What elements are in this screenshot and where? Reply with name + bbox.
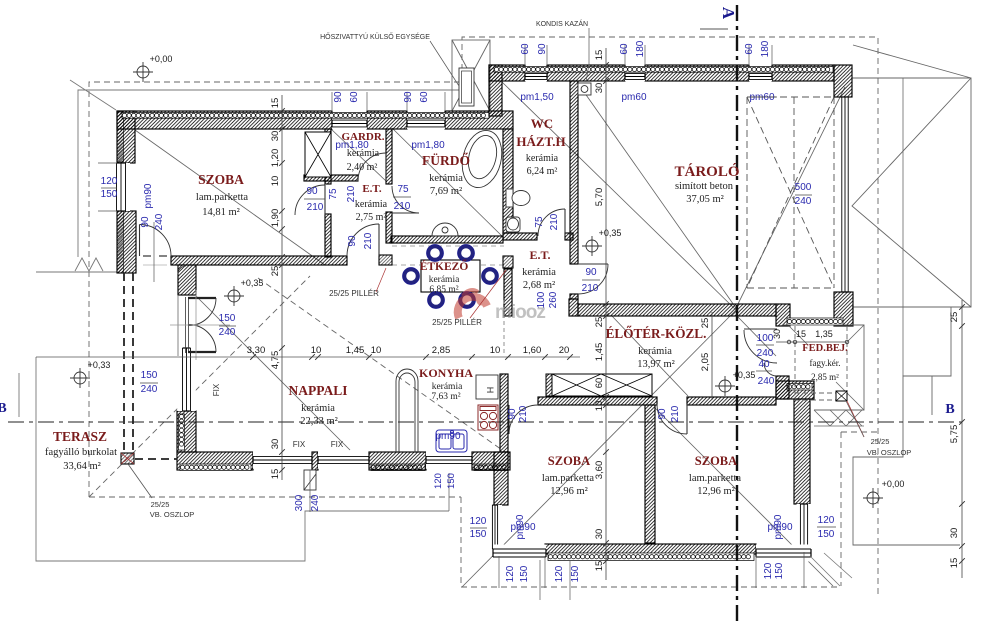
terrace dashed diagonal — [89, 276, 310, 497]
svg-text:3,30: 3,30 — [247, 345, 266, 356]
insulation dots north wall left block — [122, 113, 489, 119]
svg-text:210: 210 — [394, 201, 411, 212]
svg-text:240: 240 — [310, 494, 321, 511]
svg-text:KONYHA: KONYHA — [419, 366, 473, 380]
svg-text:30: 30 — [594, 529, 605, 540]
wall furdo south — [391, 236, 503, 243]
svg-text:100: 100 — [757, 333, 774, 344]
svg-text:pm1,80: pm1,80 — [411, 140, 445, 151]
dim chain vertical x606 — [605, 48, 607, 580]
svg-text:pm60: pm60 — [749, 92, 774, 103]
dim chain vertical x712 eloter — [711, 312, 713, 400]
svg-text:5,75: 5,75 — [949, 425, 960, 444]
svg-text:15: 15 — [796, 329, 806, 339]
level marker +0,00 top — [133, 62, 153, 82]
tarolo east glazing — [842, 97, 848, 292]
extension lines szoba1 west window — [98, 162, 117, 164]
svg-text:SZOBA: SZOBA — [198, 172, 244, 187]
door entry 100/240 main leaf — [744, 330, 777, 363]
toilet wc — [506, 189, 530, 207]
svg-text:90: 90 — [537, 43, 548, 55]
svg-text:10: 10 — [371, 345, 382, 356]
svg-text:30: 30 — [949, 528, 960, 539]
svg-text:+0,35: +0,35 — [241, 278, 264, 288]
wall konyha east — [500, 374, 508, 452]
window fix nappali south 1 — [253, 451, 312, 469]
chairs etkezo blue — [427, 245, 444, 262]
pillar 25/25 at et268 — [503, 256, 513, 268]
svg-text:210: 210 — [582, 283, 599, 294]
svg-text:15: 15 — [270, 469, 281, 480]
svg-text:10: 10 — [311, 345, 322, 356]
door wc 75/210 — [538, 209, 565, 236]
svg-text:TERASZ: TERASZ — [53, 429, 107, 444]
svg-text:kerámia: kerámia — [432, 382, 463, 392]
fed.bej roof diagonals — [789, 325, 864, 426]
post nappali south — [312, 452, 318, 470]
svg-text:lam.parketta: lam.parketta — [542, 473, 595, 484]
window bottom right pm90 — [756, 545, 811, 562]
roof corner diagonal top-left — [70, 80, 116, 110]
svg-text:90: 90 — [657, 408, 668, 420]
parapet window gardr 90/60 — [332, 118, 367, 129]
svg-text:15: 15 — [949, 558, 960, 569]
svg-text:KONDIS KAZÁN: KONDIS KAZÁN — [536, 19, 588, 28]
fed.bej column 25/25 — [836, 391, 864, 437]
wall wc/tarolo divider east — [570, 81, 578, 264]
heat pump unit — [459, 68, 474, 106]
wall hall south / rooms north — [538, 397, 657, 405]
door threshold marks szoba1 south door — [143, 255, 151, 257]
svg-text:FÜRDŐ: FÜRDŐ — [422, 153, 470, 168]
level marker +0,33 — [70, 368, 90, 388]
wall gardr south — [304, 175, 358, 181]
stove konyha — [478, 405, 498, 430]
svg-text:100: 100 — [536, 291, 547, 308]
extension line szoba1 south door — [153, 222, 155, 282]
svg-text:2,68 m²: 2,68 m² — [523, 280, 555, 291]
svg-text:240: 240 — [154, 213, 165, 230]
wall wc west / furdo east — [503, 129, 513, 233]
svg-text:1,60: 1,60 — [523, 345, 542, 356]
entry steps diagonals bottom right — [810, 553, 852, 586]
svg-text:210: 210 — [549, 213, 560, 230]
dim fed.bej chain — [776, 341, 847, 343]
door et275 south 90/210 — [347, 224, 379, 256]
svg-text:kerámia: kerámia — [526, 153, 559, 164]
wall tarolo southeast corner — [834, 292, 853, 326]
french door terrace 150/240 — [188, 297, 216, 299]
roof outline big right rectangle — [852, 45, 971, 307]
window corner szoba-br east — [797, 504, 812, 546]
svg-text:fagyálló burkolat: fagyálló burkolat — [45, 447, 117, 458]
wall north of szoba1/gardr/furdo — [117, 111, 332, 129]
wall between bottom szoba rooms — [645, 405, 655, 543]
corner window szoba-bl west part — [488, 505, 502, 549]
svg-text:+0,35: +0,35 — [599, 228, 622, 238]
svg-text:4,75: 4,75 — [270, 351, 281, 370]
garden path outline left — [36, 357, 449, 561]
post footing below nappali south wall — [304, 470, 316, 490]
leader to VB oszlop text — [128, 464, 152, 498]
svg-text:13,97 m²: 13,97 m² — [637, 359, 675, 370]
right fence vertical line — [902, 78, 904, 376]
door szoba-bl 90/210 — [509, 405, 538, 434]
window top 60/90 — [525, 72, 547, 81]
window nappali south 120/150 — [426, 451, 472, 469]
svg-text:B: B — [0, 401, 7, 416]
door gardr 75/210 — [358, 153, 386, 181]
svg-text:NAPPALI: NAPPALI — [289, 383, 348, 398]
dim chain horizontal y357 — [36, 356, 580, 358]
svg-text:kerámia: kerámia — [355, 199, 388, 210]
wall tarolo south — [578, 304, 776, 316]
svg-text:150: 150 — [470, 529, 487, 540]
svg-text:37,05 m²: 37,05 m² — [686, 194, 724, 205]
parapet window furdo 90/60 — [407, 118, 445, 129]
svg-text:fagy.kér.: fagy.kér. — [810, 358, 841, 368]
svg-text:90: 90 — [507, 408, 518, 420]
door et268 90/210 — [578, 264, 608, 294]
svg-text:12,96 m²: 12,96 m² — [550, 486, 588, 497]
fridge konyha — [476, 375, 498, 399]
svg-text:240: 240 — [219, 327, 236, 338]
svg-text:25/25: 25/25 — [871, 437, 890, 446]
svg-text:B: B — [945, 402, 954, 417]
dim chain vertical right x962 — [961, 300, 963, 578]
svg-text:60: 60 — [419, 91, 430, 103]
svg-text:40: 40 — [758, 359, 770, 370]
svg-text:TÁROLÓ: TÁROLÓ — [674, 163, 739, 180]
svg-text:VB. OSZLOP: VB. OSZLOP — [867, 448, 912, 457]
svg-text:210: 210 — [307, 202, 324, 213]
insulation dots nappali south wall — [180, 464, 251, 471]
svg-text:+0,00: +0,00 — [882, 479, 905, 489]
terrace pillar 25/25 VB oszlop — [121, 453, 134, 464]
section line B horizontal — [8, 421, 962, 423]
insulation strip szoba1 west wall — [117, 112, 124, 162]
terrace heavy dashed edge horizontal — [135, 458, 177, 460]
door szoba-br 90/210 — [657, 404, 687, 434]
svg-text:7,69 m²: 7,69 m² — [430, 186, 462, 197]
svg-text:75: 75 — [397, 184, 409, 195]
svg-text:E.T.: E.T. — [362, 183, 382, 195]
svg-text:180: 180 — [635, 40, 646, 57]
svg-text:14,81 m²: 14,81 m² — [202, 207, 240, 218]
svg-text:2,85 m²: 2,85 m² — [811, 372, 839, 382]
svg-text:120: 120 — [101, 176, 118, 187]
dashed projection line pillar2 — [503, 300, 505, 356]
svg-text:90: 90 — [140, 216, 151, 228]
wall eloter southeast corner piece — [776, 304, 790, 326]
wall szoba1 west pier — [117, 211, 136, 273]
wall szoba-br east — [794, 399, 810, 504]
svg-text:180: 180 — [760, 40, 771, 57]
wall wc south — [503, 233, 537, 240]
svg-text:lam.parketta: lam.parketta — [196, 192, 249, 203]
door furdo 75/210 — [392, 186, 419, 213]
roof ridge dashed diagonal over nappali — [258, 278, 505, 452]
svg-text:15: 15 — [594, 50, 605, 61]
svg-text:1,20: 1,20 — [270, 149, 281, 168]
terrace heavy dashed edge vertical — [123, 273, 125, 453]
svg-text:120: 120 — [505, 565, 516, 582]
svg-text:WC: WC — [531, 116, 553, 131]
dining table etkezo — [421, 260, 480, 292]
svg-text:+0,33: +0,33 — [88, 360, 111, 370]
wall corner et/tarolo south — [569, 299, 578, 316]
svg-text:30: 30 — [772, 329, 782, 339]
svg-text:SZOBA: SZOBA — [548, 454, 590, 468]
svg-text:150: 150 — [101, 189, 118, 200]
svg-text:25: 25 — [949, 312, 960, 323]
svg-text:FED.BEJ.: FED.BEJ. — [802, 343, 848, 354]
terrace north edge line — [36, 271, 117, 273]
svg-text:60: 60 — [349, 91, 360, 103]
svg-text:60: 60 — [744, 43, 755, 55]
pillar 25/25 at nappali/et corner — [379, 255, 392, 265]
svg-text:33,64 m²: 33,64 m² — [63, 461, 101, 472]
svg-text:60: 60 — [520, 43, 531, 55]
svg-text:150: 150 — [818, 529, 835, 540]
north fence line — [78, 77, 459, 257]
svg-text:120: 120 — [818, 515, 835, 526]
washbasin wc — [506, 217, 520, 232]
svg-text:2,75 m²: 2,75 m² — [356, 212, 387, 223]
window top 60/180 no2 — [749, 72, 772, 81]
svg-text:lam.parketta: lam.parketta — [689, 473, 742, 484]
wall furdo west — [386, 129, 392, 184]
svg-text:pm90: pm90 — [773, 514, 784, 539]
svg-text:pm90: pm90 — [435, 431, 460, 442]
window top 60/180 no1 — [625, 72, 645, 81]
wall north top block wc/tarolo — [489, 65, 525, 81]
level marker +0,35 eloter — [715, 376, 735, 396]
wall nappali west — [177, 411, 196, 452]
svg-text:H: H — [485, 387, 495, 394]
svg-text:3,60: 3,60 — [594, 461, 605, 480]
svg-text:HÁZT.H: HÁZT.H — [516, 134, 565, 149]
svg-text:90: 90 — [333, 91, 344, 103]
svg-text:1,35: 1,35 — [815, 329, 833, 339]
svg-text:pm90: pm90 — [143, 183, 154, 208]
svg-text:210: 210 — [518, 405, 529, 422]
svg-text:1,90: 1,90 — [270, 209, 281, 228]
section line A vertical — [736, 5, 738, 623]
nappali corner fillet — [178, 266, 186, 274]
etkezo dashed ceiling lines — [392, 245, 504, 247]
svg-text:10: 10 — [594, 401, 605, 412]
wall szoba1 west upper — [117, 111, 135, 163]
wall szoba1 east — [325, 129, 331, 184]
wall nappali south west segment — [177, 452, 253, 470]
svg-text:A: A — [719, 7, 738, 20]
svg-text:240: 240 — [795, 196, 812, 207]
insulation dots fed.bej ledge — [787, 318, 843, 325]
wall tarolo northeast corner — [834, 65, 852, 97]
svg-text:kerámia: kerámia — [638, 346, 672, 357]
svg-text:150: 150 — [446, 473, 457, 489]
svg-text:25/25 PILLÉR: 25/25 PILLÉR — [432, 318, 482, 327]
svg-text:1,45: 1,45 — [346, 345, 365, 356]
svg-text:90: 90 — [585, 267, 597, 278]
wall block northeast raised — [776, 381, 814, 399]
svg-text:120: 120 — [763, 562, 774, 579]
window szoba1 west 120/150 — [112, 163, 130, 211]
svg-text:FIX: FIX — [212, 383, 221, 396]
wall nappali south east corner — [472, 452, 510, 470]
svg-text:150: 150 — [141, 370, 158, 381]
svg-text:FIX: FIX — [331, 440, 344, 449]
wall et268 west with pillar — [504, 269, 512, 316]
konyha counter arch — [396, 369, 418, 452]
svg-text:kerámia: kerámia — [429, 275, 460, 285]
svg-text:75: 75 — [534, 216, 545, 228]
garage door dashed opening in TAROLO — [747, 97, 834, 288]
wardrobe hall with X — [546, 374, 652, 396]
svg-text:25: 25 — [594, 317, 605, 328]
door entry 40 side leaf — [764, 363, 777, 376]
svg-text:GARDR.: GARDR. — [341, 131, 384, 143]
fed.bej dashed rectangle — [795, 326, 847, 400]
svg-text:90: 90 — [306, 186, 318, 197]
svg-text:240: 240 — [758, 376, 775, 387]
svg-text:120: 120 — [433, 473, 444, 489]
svg-text:25: 25 — [270, 266, 281, 277]
wall nappali south mid segment — [369, 452, 426, 470]
insulation dots nappali west wall — [179, 414, 185, 450]
svg-text:pm90: pm90 — [515, 514, 526, 539]
svg-text:2,40 m²: 2,40 m² — [347, 162, 378, 173]
level marker +0,35 tarolo — [582, 236, 602, 256]
svg-text:150: 150 — [219, 313, 236, 324]
svg-text:HŐSZIVATTYÚ KÜLSŐ EGYSÉGE: HŐSZIVATTYÚ KÜLSŐ EGYSÉGE — [320, 32, 430, 41]
svg-text:pm60: pm60 — [621, 92, 646, 103]
terrace corner stair triangles — [75, 258, 103, 271]
extension lines top windows — [524, 45, 526, 64]
svg-text:+0,00: +0,00 — [150, 54, 173, 64]
wardrobe gardr with X — [305, 132, 331, 177]
svg-text:30: 30 — [594, 83, 605, 94]
svg-text:30: 30 — [270, 131, 281, 142]
level marker +0,00 right — [863, 488, 883, 508]
svg-text:ÉTKEZŐ: ÉTKEZŐ — [420, 258, 469, 273]
svg-text:pm1,50: pm1,50 — [520, 92, 554, 103]
svg-text:75: 75 — [328, 188, 339, 200]
svg-text:6,85 m²: 6,85 m² — [429, 285, 458, 295]
svg-text:30: 30 — [270, 439, 281, 450]
roof hip diagonals inside rooms — [135, 82, 845, 587]
french door sill lines — [177, 295, 179, 356]
fed.bej slab outline — [782, 325, 864, 410]
svg-text:E.T.: E.T. — [529, 248, 550, 262]
wall eloter east below entry — [776, 376, 789, 399]
svg-text:1,45: 1,45 — [594, 343, 605, 362]
svg-text:FIX: FIX — [293, 440, 306, 449]
heat pump platform with cross — [452, 40, 490, 111]
svg-text:ÉLŐTÉR-KÖZL.: ÉLŐTÉR-KÖZL. — [606, 326, 707, 341]
svg-text:150: 150 — [774, 562, 785, 579]
left boundary tick line — [18, 373, 20, 417]
svg-text:7,63 m²: 7,63 m² — [431, 392, 460, 402]
svg-text:60: 60 — [594, 378, 605, 389]
svg-text:210: 210 — [670, 405, 681, 422]
bathtub furdo — [457, 126, 508, 191]
svg-text:2,85: 2,85 — [432, 345, 451, 356]
svg-text:150: 150 — [570, 565, 581, 582]
svg-text:90: 90 — [403, 91, 414, 103]
boiler kondis kazan — [578, 83, 591, 95]
window fix nappali south 2 — [318, 451, 369, 469]
wall nappali northwest corner block — [178, 265, 196, 295]
svg-text:260: 260 — [548, 291, 559, 308]
wall szoba-bl west — [494, 452, 508, 505]
dim chain vertical x282 — [281, 95, 283, 480]
window fix nappali west — [177, 348, 196, 411]
svg-text:300: 300 — [294, 494, 305, 511]
washbasin furdo — [432, 223, 458, 236]
svg-text:60: 60 — [619, 43, 630, 55]
svg-text:20: 20 — [559, 345, 570, 356]
insulation dots north wall top block — [494, 67, 833, 73]
extension lines bottom windows — [498, 556, 500, 588]
wall szoba1/et south — [171, 256, 347, 265]
svg-text:VB. OSZLOP: VB. OSZLOP — [150, 510, 195, 519]
svg-text:5,70: 5,70 — [594, 188, 605, 207]
door szoba1 south 90/240 swings up — [140, 225, 172, 257]
svg-text:22,33 m²: 22,33 m² — [300, 416, 338, 427]
svg-text:SZOBA: SZOBA — [695, 454, 737, 468]
svg-text:120: 120 — [470, 516, 487, 527]
watermark logo — [458, 290, 546, 323]
svg-text:240: 240 — [141, 384, 158, 395]
svg-text:15: 15 — [270, 98, 281, 109]
svg-text:2,05: 2,05 — [700, 353, 711, 372]
insulation dots bottom wall — [548, 553, 754, 561]
svg-text:kerámia: kerámia — [429, 173, 463, 184]
roof overhang dashed outline — [89, 37, 878, 595]
svg-text:25/25 PILLÉR: 25/25 PILLÉR — [329, 289, 379, 298]
level marker +0,35 nappali — [224, 286, 244, 306]
window bottom left pm90 — [493, 545, 546, 562]
neighbor building outline right — [853, 307, 960, 545]
svg-text:kerámia: kerámia — [347, 148, 380, 159]
sink konyha blue — [436, 430, 467, 452]
svg-text:12,96 m²: 12,96 m² — [697, 486, 735, 497]
svg-text:10: 10 — [270, 176, 281, 187]
svg-text:6,24 m²: 6,24 m² — [527, 166, 558, 177]
svg-text:500: 500 — [795, 182, 812, 193]
svg-text:kerámia: kerámia — [301, 403, 335, 414]
svg-text:90: 90 — [347, 235, 358, 247]
svg-text:kerámia: kerámia — [522, 267, 556, 278]
svg-text:210: 210 — [363, 232, 374, 249]
svg-text:120: 120 — [554, 565, 565, 582]
svg-text:25/25: 25/25 — [151, 500, 170, 509]
svg-text:150: 150 — [519, 565, 530, 582]
wall bottom south — [545, 544, 756, 554]
svg-text:15: 15 — [594, 561, 605, 572]
svg-text:10: 10 — [490, 345, 501, 356]
svg-text:simított beton: simított beton — [675, 181, 734, 192]
svg-text:+0,35: +0,35 — [733, 370, 756, 380]
svg-text:240: 240 — [757, 348, 774, 359]
door szoba1 east 90/210 — [295, 185, 325, 215]
wall step between blocks — [489, 65, 502, 116]
